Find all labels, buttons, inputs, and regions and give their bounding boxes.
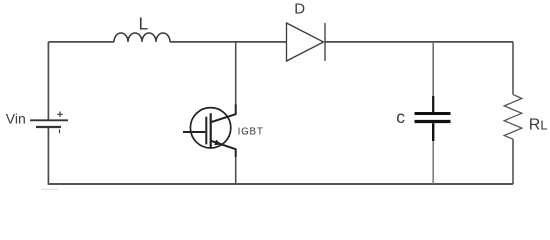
wire diode cathode to top-right corner [325, 41, 513, 43]
wire capacitor branch lower [432, 141, 434, 184]
svg-text:c: c [396, 107, 405, 127]
svg-text:L: L [139, 14, 149, 34]
capacitor C [415, 96, 451, 141]
diode D [287, 23, 326, 61]
inductor L [114, 33, 170, 42]
wire bottom rail [48, 183, 513, 185]
wire left rail upper [47, 42, 49, 120]
svg-text:D: D [294, 0, 305, 17]
svg-text:RL: RL [529, 116, 548, 133]
wire emitter riser [235, 157, 237, 184]
wire right rail upper [512, 42, 514, 95]
svg-text:Vin: Vin [6, 110, 26, 126]
wire collector riser [235, 42, 237, 105]
transistor IGBT [183, 105, 236, 158]
shadow smudge [42, 188, 58, 190]
wire inductor to diode anode [170, 41, 287, 43]
wire top rail left [48, 41, 114, 43]
resistor RL [504, 95, 522, 140]
wire capacitor branch upper [432, 42, 434, 97]
battery Vin [30, 112, 68, 134]
svg-text:IGBT: IGBT [238, 127, 264, 138]
wire right rail lower [512, 139, 514, 184]
wire left rail lower [47, 128, 49, 184]
